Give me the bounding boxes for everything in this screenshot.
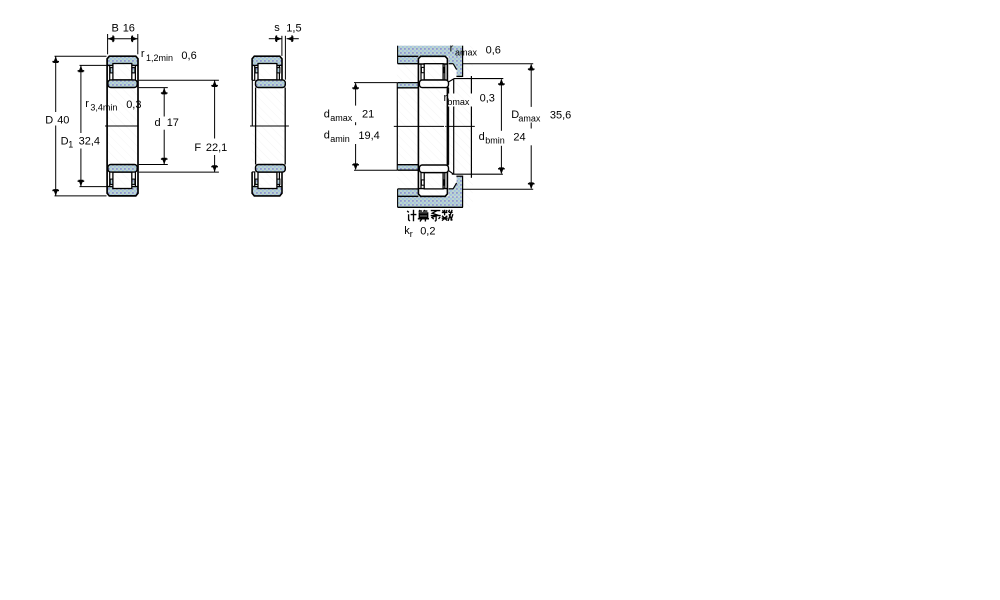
svg-text:amax: amax: [518, 113, 541, 123]
svg-text:0,3: 0,3: [126, 99, 141, 111]
svg-text:amax: amax: [330, 113, 353, 123]
svg-text:3,4min: 3,4min: [90, 102, 117, 112]
svg-text:r: r: [85, 98, 89, 110]
svg-text:0,2: 0,2: [420, 226, 435, 238]
svg-text:0,3: 0,3: [480, 93, 495, 105]
svg-text:1: 1: [68, 140, 73, 150]
svg-text:d: d: [324, 109, 330, 121]
svg-text:F: F: [194, 142, 201, 154]
svg-text:19,4: 19,4: [358, 130, 379, 142]
svg-text:s: s: [274, 22, 280, 34]
svg-text:r: r: [450, 42, 454, 54]
svg-text:17: 17: [167, 117, 179, 129]
svg-text:amin: amin: [330, 134, 350, 144]
svg-text:B: B: [112, 23, 119, 35]
svg-text:r: r: [141, 48, 145, 60]
svg-text:d: d: [155, 117, 161, 129]
svg-text:32,4: 32,4: [79, 136, 100, 148]
svg-text:0,6: 0,6: [486, 45, 501, 57]
svg-text:35,6: 35,6: [550, 110, 571, 122]
svg-text:24: 24: [513, 131, 525, 143]
svg-text:21: 21: [362, 109, 374, 121]
svg-text:1,2min: 1,2min: [146, 53, 173, 63]
svg-text:d: d: [479, 131, 485, 143]
svg-text:22,1: 22,1: [206, 142, 227, 154]
svg-text:bmax: bmax: [447, 97, 470, 107]
svg-text:bmin: bmin: [485, 136, 505, 146]
svg-text:16: 16: [123, 23, 135, 35]
svg-text:40: 40: [57, 114, 69, 126]
svg-text:D: D: [45, 114, 53, 126]
svg-text:d: d: [324, 130, 330, 142]
svg-text:r: r: [410, 229, 413, 239]
svg-text:1,5: 1,5: [286, 22, 301, 34]
svg-text:0,6: 0,6: [181, 50, 196, 62]
svg-text:amax: amax: [455, 47, 478, 57]
